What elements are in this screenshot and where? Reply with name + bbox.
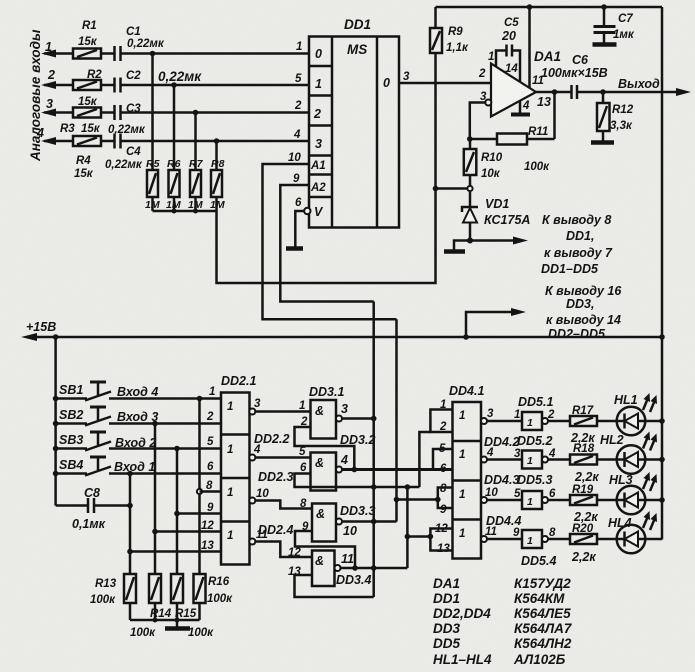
wire pin11 V+ from top rail xyxy=(528,7,531,88)
svg-text:DA1: DA1 xyxy=(433,576,460,591)
svg-text:2: 2 xyxy=(547,409,555,421)
wire arrow to power pins note1 xyxy=(470,237,528,245)
resistor R11 100к xyxy=(497,126,550,173)
svg-text:1: 1 xyxy=(459,410,465,422)
wire DD4.2 out to DD5.2 xyxy=(487,458,522,461)
wire row3 C3 to DD1 pin2 xyxy=(121,111,310,114)
inverter DD5.1 xyxy=(514,395,555,430)
capacitor C7 1мк xyxy=(594,4,635,43)
wire R9 top to +15 top rail xyxy=(434,7,437,28)
svg-text:11: 11 xyxy=(341,552,354,566)
svg-text:2: 2 xyxy=(47,68,55,82)
svg-text:HL2: HL2 xyxy=(600,433,624,447)
svg-text:+15В: +15В xyxy=(26,320,56,334)
pushbutton SB1 xyxy=(53,382,221,401)
svg-text:&: & xyxy=(315,554,324,568)
svg-text:1: 1 xyxy=(227,530,233,542)
svg-text:HL1–HL4: HL1–HL4 xyxy=(433,652,492,667)
svg-text:DD5.2: DD5.2 xyxy=(517,434,552,448)
resistor R9 1,1к xyxy=(430,26,469,54)
wire SB2 net vertical (pins 2,12 / R14) xyxy=(154,424,157,575)
svg-text:4: 4 xyxy=(253,444,261,456)
svg-text:R19: R19 xyxy=(572,484,594,496)
svg-text:SB2: SB2 xyxy=(59,408,83,422)
wire op-amp output pin13 xyxy=(536,91,572,94)
resistor R14 100к xyxy=(130,574,172,639)
wire A1 net vertical xyxy=(395,319,398,521)
wire row1 down to R5 xyxy=(151,54,154,171)
svg-text:9: 9 xyxy=(207,502,214,514)
capacitor C5 20 xyxy=(496,17,520,82)
node note2 text xyxy=(545,284,622,341)
svg-text:DD4.3: DD4.3 xyxy=(484,473,519,487)
svg-text:R12: R12 xyxy=(612,104,634,116)
wire R11 left lead xyxy=(470,138,497,141)
svg-text:Вход 3: Вход 3 xyxy=(117,410,158,424)
svg-text:11: 11 xyxy=(256,529,268,541)
resistor R7 1М xyxy=(188,158,204,211)
svg-text:13: 13 xyxy=(537,95,551,109)
svg-text:Выход: Выход xyxy=(618,77,660,91)
svg-text:5: 5 xyxy=(299,446,306,458)
svg-text:3: 3 xyxy=(254,398,261,410)
svg-text:C6: C6 xyxy=(572,53,589,67)
wire DD3.4 pin13 from DD3.3 out xyxy=(295,575,374,597)
svg-text:1,1к: 1,1к xyxy=(446,42,469,54)
svg-text:8: 8 xyxy=(300,498,307,510)
ground at C7 xyxy=(593,42,617,47)
svg-text:DD1,: DD1, xyxy=(566,229,594,243)
svg-text:3: 3 xyxy=(514,448,521,460)
svg-text:10к: 10к xyxy=(481,168,501,180)
wire DD3.4-out riser vertical xyxy=(406,487,409,568)
wire R10 leads xyxy=(469,139,472,149)
DD2.4 output bubble pin11 xyxy=(249,539,255,545)
svg-text:12: 12 xyxy=(435,523,448,535)
svg-text:1: 1 xyxy=(514,409,520,421)
wire row4 C4 to DD1 pin4 xyxy=(121,140,310,143)
pin 6 bubble V input xyxy=(304,208,310,214)
pushbutton SB2 xyxy=(53,407,221,426)
svg-text:SB3: SB3 xyxy=(59,433,83,447)
svg-text:100к: 100к xyxy=(90,594,116,606)
svg-text:3,3к: 3,3к xyxy=(610,120,633,132)
svg-text:DD5.4: DD5.4 xyxy=(521,554,556,568)
junction R12 top xyxy=(600,89,606,95)
DD4.4 output bubble pin11 xyxy=(481,536,487,542)
svg-text:1: 1 xyxy=(227,401,233,413)
svg-text:100к: 100к xyxy=(188,627,214,639)
svg-text:SB1: SB1 xyxy=(59,383,83,397)
svg-text:15к: 15к xyxy=(78,36,98,48)
svg-text:100к: 100к xyxy=(130,627,156,639)
wire DD4 pins8,9 bracket xyxy=(438,488,453,509)
wire DD4 pins12,13 bracket xyxy=(430,529,452,551)
+15V horizontal rail with left arrow xyxy=(21,320,662,341)
wire DD2.2 out to DD3.2 pin5 xyxy=(255,456,310,459)
svg-text:10: 10 xyxy=(256,488,269,500)
svg-text:10: 10 xyxy=(288,152,301,164)
wire R13-R16 bottoms common xyxy=(129,603,132,620)
wire DD4 pins1,2 bracket xyxy=(430,410,452,433)
svg-text:Аналоговые входы: Аналоговые входы xyxy=(28,29,43,162)
svg-text:2,2к: 2,2к xyxy=(573,510,598,524)
pushbutton SB4 xyxy=(53,457,221,476)
capacitor C2 0,22мк xyxy=(101,69,202,93)
wire R11 right lead xyxy=(527,138,555,141)
junction VD1 anode xyxy=(467,238,473,244)
svg-text:DD2–DD5: DD2–DD5 xyxy=(548,327,606,341)
NAND gate DD3.4 xyxy=(288,547,371,587)
svg-text:R9: R9 xyxy=(448,26,463,38)
svg-text:C7: C7 xyxy=(618,13,633,25)
wire arrow to power pins note2 xyxy=(463,308,526,340)
svg-text:100к: 100к xyxy=(524,161,550,173)
svg-text:8: 8 xyxy=(440,483,447,495)
svg-text:DD5: DD5 xyxy=(433,636,460,651)
svg-text:КС175А: КС175А xyxy=(484,213,530,227)
parts list table xyxy=(433,576,573,667)
svg-text:К564ЛН2: К564ЛН2 xyxy=(514,636,572,651)
pushbutton SB3 xyxy=(53,432,221,451)
resistor R20 2,2к xyxy=(548,523,597,564)
wire DD2.1 out to DD3.1 pin1 xyxy=(255,410,310,413)
wire DD2 pin13 xyxy=(130,550,221,553)
resistor R1 15к xyxy=(73,20,101,59)
svg-text:DD4.1: DD4.1 xyxy=(449,384,484,398)
right +15V rail xyxy=(661,7,664,540)
wire riser to DD4 pins12,13 xyxy=(407,535,430,538)
wire A1: DD1 pin10 route xyxy=(263,164,397,319)
svg-text:1: 1 xyxy=(459,449,465,461)
junction row4/R8 xyxy=(214,138,220,144)
wire R5-R8 commons to bias xyxy=(151,197,154,211)
svg-text:12: 12 xyxy=(201,520,214,532)
wire A1 net to DD4 pins8,9 xyxy=(397,498,438,501)
svg-text:14: 14 xyxy=(505,63,518,75)
wire DD3.2 pin6 from DD3.1 out xyxy=(295,474,420,488)
svg-text:К564ЛА7: К564ЛА7 xyxy=(514,621,573,636)
NAND gate DD3.1 xyxy=(299,385,348,439)
svg-text:DD3: DD3 xyxy=(433,621,460,636)
svg-text:1: 1 xyxy=(299,400,305,412)
wire A2 net vertical xyxy=(372,302,375,598)
svg-text:1: 1 xyxy=(527,455,533,467)
svg-text:R10: R10 xyxy=(481,152,503,164)
resistor R13 100к xyxy=(90,574,136,606)
svg-text:&: & xyxy=(315,404,324,418)
wire C6 to output arrow xyxy=(577,91,685,94)
DD4.3 output bubble pin10 xyxy=(481,497,487,503)
wire DD3.1 pin2 from DD3.2 out xyxy=(295,427,355,470)
svg-text:2: 2 xyxy=(439,421,447,433)
DD4.1 output bubble pin3 xyxy=(481,418,487,424)
svg-text:К564КМ: К564КМ xyxy=(514,591,565,606)
svg-text:5: 5 xyxy=(439,443,446,455)
NAND gate DD3.2 xyxy=(299,433,375,491)
svg-text:2: 2 xyxy=(294,100,302,112)
svg-text:&: & xyxy=(315,456,324,470)
resistor R19 2,2к xyxy=(548,484,598,524)
svg-text:4: 4 xyxy=(340,453,348,467)
wire feed to DD4 pins1,2 xyxy=(419,432,430,487)
resistor R18 2,2к xyxy=(548,443,599,484)
wire DD3.3 pin9 from DD3.4 out xyxy=(295,531,355,568)
svg-text:1: 1 xyxy=(459,528,465,540)
svg-text:к выводу 14: к выводу 14 xyxy=(546,313,621,327)
wire DD2 pin8 xyxy=(200,490,222,493)
node input 2 arrow xyxy=(41,68,73,89)
svg-text:3: 3 xyxy=(487,408,494,420)
wire row2 C2 to DD1 pin5 xyxy=(121,84,310,87)
multiplexer DD1 MS xyxy=(309,17,399,228)
svg-text:DD3.1: DD3.1 xyxy=(309,385,344,399)
junction rail/right rail xyxy=(659,334,665,340)
svg-text:DD3.2: DD3.2 xyxy=(340,433,375,447)
wire SB3 net vertical (pins 5,9 / R15) xyxy=(176,449,179,575)
svg-text:1: 1 xyxy=(440,399,446,411)
wire DD2 pin9 xyxy=(177,512,221,515)
svg-text:R1: R1 xyxy=(82,20,97,32)
wire DD4 pins5,6 bracket xyxy=(433,449,453,470)
svg-text:R18: R18 xyxy=(573,443,595,455)
wire DD4.1 out to DD5.1 xyxy=(487,420,522,423)
svg-text:R7: R7 xyxy=(189,158,204,170)
svg-text:К564ЛЕ5: К564ЛЕ5 xyxy=(514,606,571,621)
zener diode VD1 КС175А xyxy=(462,191,530,241)
svg-text:К выводу 16: К выводу 16 xyxy=(545,284,622,298)
svg-text:2,2к: 2,2к xyxy=(574,470,599,484)
capacitor C1 0,22мк xyxy=(101,26,165,61)
svg-text:3: 3 xyxy=(341,402,348,416)
svg-text:К выводу 8: К выводу 8 xyxy=(542,213,611,227)
svg-text:1: 1 xyxy=(527,496,533,508)
svg-text:3: 3 xyxy=(46,97,53,111)
DD2.3 output bubble pin10 xyxy=(249,498,255,504)
wire DD2.3 out to DD3.3 pin8 xyxy=(255,501,312,509)
svg-text:R11: R11 xyxy=(528,126,548,138)
wire row3 down to R7 xyxy=(194,113,197,171)
wire row1 C1 to DD1 pin1 xyxy=(121,52,310,55)
resistor R6 1М xyxy=(166,158,181,211)
svg-text:1: 1 xyxy=(227,444,233,456)
junction row3/R7 xyxy=(193,110,199,116)
NAND gate DD3.3 xyxy=(300,498,375,542)
svg-text:1: 1 xyxy=(527,535,533,547)
svg-text:DD5.1: DD5.1 xyxy=(518,395,553,409)
svg-text:R3: R3 xyxy=(60,123,75,135)
resistor R15 100к xyxy=(171,574,214,639)
svg-text:6: 6 xyxy=(549,488,556,500)
svg-text:2: 2 xyxy=(313,107,321,121)
svg-text:R20: R20 xyxy=(572,523,594,535)
junction bias/R10 link xyxy=(433,186,439,192)
svg-text:6: 6 xyxy=(207,461,214,473)
svg-text:100к: 100к xyxy=(207,593,233,605)
svg-text:DD3.4: DD3.4 xyxy=(336,573,371,587)
svg-text:C2: C2 xyxy=(126,70,141,82)
wire output node down to R11 xyxy=(553,92,556,139)
svg-text:8: 8 xyxy=(549,527,556,539)
inverter DD5.2 xyxy=(514,434,556,469)
node input 1 arrow xyxy=(41,40,73,58)
svg-text:15к: 15к xyxy=(81,123,101,135)
svg-text:4: 4 xyxy=(548,448,556,460)
wire DD1 out pin3 to op-amp pin2 xyxy=(399,82,491,85)
svg-text:20: 20 xyxy=(501,29,516,43)
svg-text:R8: R8 xyxy=(211,158,225,170)
svg-text:R4: R4 xyxy=(76,155,91,167)
wire row2 down to R6 xyxy=(173,85,176,170)
svg-text:2: 2 xyxy=(478,68,486,80)
LED HL2 xyxy=(597,432,665,474)
svg-text:R6: R6 xyxy=(167,158,181,170)
svg-text:100мк×15В: 100мк×15В xyxy=(541,66,608,80)
svg-text:DD5.3: DD5.3 xyxy=(517,473,552,487)
capacitor C3 0,22мк xyxy=(101,103,146,136)
DD2.2 output bubble pin4 xyxy=(249,455,255,461)
svg-text:Вход 1: Вход 1 xyxy=(114,460,155,474)
wire DD4.4 out to DD5.4 xyxy=(487,538,522,541)
svg-text:1: 1 xyxy=(227,487,233,499)
svg-text:DD3.3: DD3.3 xyxy=(340,504,375,518)
svg-text:3: 3 xyxy=(315,137,322,151)
svg-text:DD2,DD4: DD2,DD4 xyxy=(433,606,491,621)
svg-text:9: 9 xyxy=(293,173,300,185)
wire pin6 to ground xyxy=(295,211,304,248)
svg-text:5: 5 xyxy=(514,488,521,500)
wire DD2 pin12 xyxy=(155,530,221,533)
ground at DD1 pin6 xyxy=(286,246,303,251)
svg-text:12: 12 xyxy=(288,547,301,559)
svg-text:DD2.1: DD2.1 xyxy=(221,374,256,388)
top +15V rail xyxy=(436,6,663,9)
resistor R16 100к xyxy=(194,574,234,605)
junction row1/R5 xyxy=(150,51,156,57)
resistor R12 3,3к xyxy=(597,92,634,141)
wire SB bus vertical xyxy=(54,337,57,506)
wire DD3.1 out to A2 vertical xyxy=(342,417,374,420)
svg-text:15к: 15к xyxy=(74,168,94,180)
inverter DD5.3 xyxy=(514,473,556,509)
svg-text:R14: R14 xyxy=(150,608,172,620)
wire row4 down to R8 xyxy=(215,141,218,170)
svg-text:1: 1 xyxy=(488,51,494,63)
wire SB1 net vertical (pins 1,8 / R16) xyxy=(198,399,201,575)
capacitor C4 0,22мк xyxy=(101,134,143,172)
svg-text:1мк: 1мк xyxy=(613,29,635,41)
svg-text:HL4: HL4 xyxy=(608,516,632,530)
wire DD3.4 out to DD4 pins1,2/12,13 riser xyxy=(341,567,408,570)
wire bias to R10 bottom node xyxy=(436,187,471,190)
svg-text:13: 13 xyxy=(437,543,450,555)
ground at R12 xyxy=(591,140,614,145)
svg-text:C1: C1 xyxy=(126,26,141,38)
NOR block DD4 (К564ЛЕ5) xyxy=(449,384,521,559)
svg-text:6: 6 xyxy=(295,197,302,209)
svg-text:1: 1 xyxy=(296,41,302,53)
ground op-amp pin4 xyxy=(511,101,530,115)
node note1 text xyxy=(541,213,613,276)
svg-text:3: 3 xyxy=(403,71,410,83)
capacitor C8 0,1мк xyxy=(56,486,130,531)
svg-text:A2: A2 xyxy=(310,182,326,194)
DD2.1 output bubble pin3 xyxy=(249,409,255,415)
junction R10 bottom / zener xyxy=(467,186,472,191)
inverter DD5.4 xyxy=(513,527,556,568)
DD4.2 output bubble pin4 xyxy=(481,457,487,463)
svg-text:VD1: VD1 xyxy=(485,197,509,211)
svg-text:R5: R5 xyxy=(146,158,160,170)
svg-text:DD1–DD5: DD1–DD5 xyxy=(541,262,599,276)
svg-text:4: 4 xyxy=(36,126,44,140)
ground at VD1 xyxy=(444,241,470,252)
svg-text:C8: C8 xyxy=(84,486,100,500)
svg-text:2,2к: 2,2к xyxy=(571,550,596,564)
LED HL4 xyxy=(597,511,662,553)
wire op-amp pin3 to R10 top node xyxy=(470,103,486,139)
svg-text:R2: R2 xyxy=(87,69,102,81)
ground at R13-R16 xyxy=(165,620,190,629)
svg-text:A1: A1 xyxy=(310,160,326,172)
svg-text:HL1: HL1 xyxy=(614,393,638,407)
svg-text:DD1: DD1 xyxy=(344,17,371,32)
node input 3 arrow xyxy=(41,97,73,117)
svg-text:9: 9 xyxy=(513,527,520,539)
svg-text:6: 6 xyxy=(440,463,447,475)
wire bias net down/right to R9 column xyxy=(217,53,436,283)
svg-text:0,22мк: 0,22мк xyxy=(105,159,143,171)
svg-text:&: & xyxy=(316,507,325,521)
resistor R5 1М xyxy=(145,158,160,211)
svg-text:6: 6 xyxy=(300,462,307,474)
svg-text:C5: C5 xyxy=(504,17,519,29)
resistor R2 15к xyxy=(73,69,102,108)
svg-text:8: 8 xyxy=(206,480,213,492)
svg-text:1: 1 xyxy=(527,417,533,429)
svg-text:MS: MS xyxy=(347,42,367,57)
svg-text:2: 2 xyxy=(206,411,214,423)
svg-text:13: 13 xyxy=(201,540,214,552)
svg-text:0,1мк: 0,1мк xyxy=(72,517,106,531)
LED HL3 xyxy=(597,472,665,514)
svg-text:5: 5 xyxy=(295,73,302,85)
resistor R17 2,2к xyxy=(548,405,597,445)
op-amp DA1 xyxy=(478,49,561,117)
svg-text:0,22мк: 0,22мк xyxy=(158,69,202,84)
wire DD4.3 out to DD5.3 xyxy=(487,499,522,502)
svg-text:4: 4 xyxy=(522,100,530,112)
svg-text:Вход 2: Вход 2 xyxy=(115,436,156,450)
svg-text:R17: R17 xyxy=(572,405,594,417)
svg-text:R13: R13 xyxy=(95,578,117,590)
junction row2/R6 xyxy=(171,82,177,88)
wire A2: DD1 pin9 route xyxy=(280,185,373,302)
wire DD3.2 out to DD4 pins5,6 (long) xyxy=(342,468,453,471)
svg-text:Вход 4: Вход 4 xyxy=(117,385,158,399)
junction rail/SB bus xyxy=(53,334,59,340)
capacitor C6 100мк x 15В xyxy=(541,53,608,99)
svg-text:DD1: DD1 xyxy=(433,591,460,606)
svg-text:9: 9 xyxy=(440,504,447,516)
svg-text:0: 0 xyxy=(315,47,322,61)
pin3 bubble op-amp xyxy=(485,100,491,106)
svg-text:1: 1 xyxy=(209,386,215,398)
svg-text:1: 1 xyxy=(459,489,465,501)
wire DD3.3 out to A1 vertical xyxy=(342,520,397,523)
svg-text:К157УД2: К157УД2 xyxy=(514,576,571,591)
svg-text:1: 1 xyxy=(45,40,52,54)
